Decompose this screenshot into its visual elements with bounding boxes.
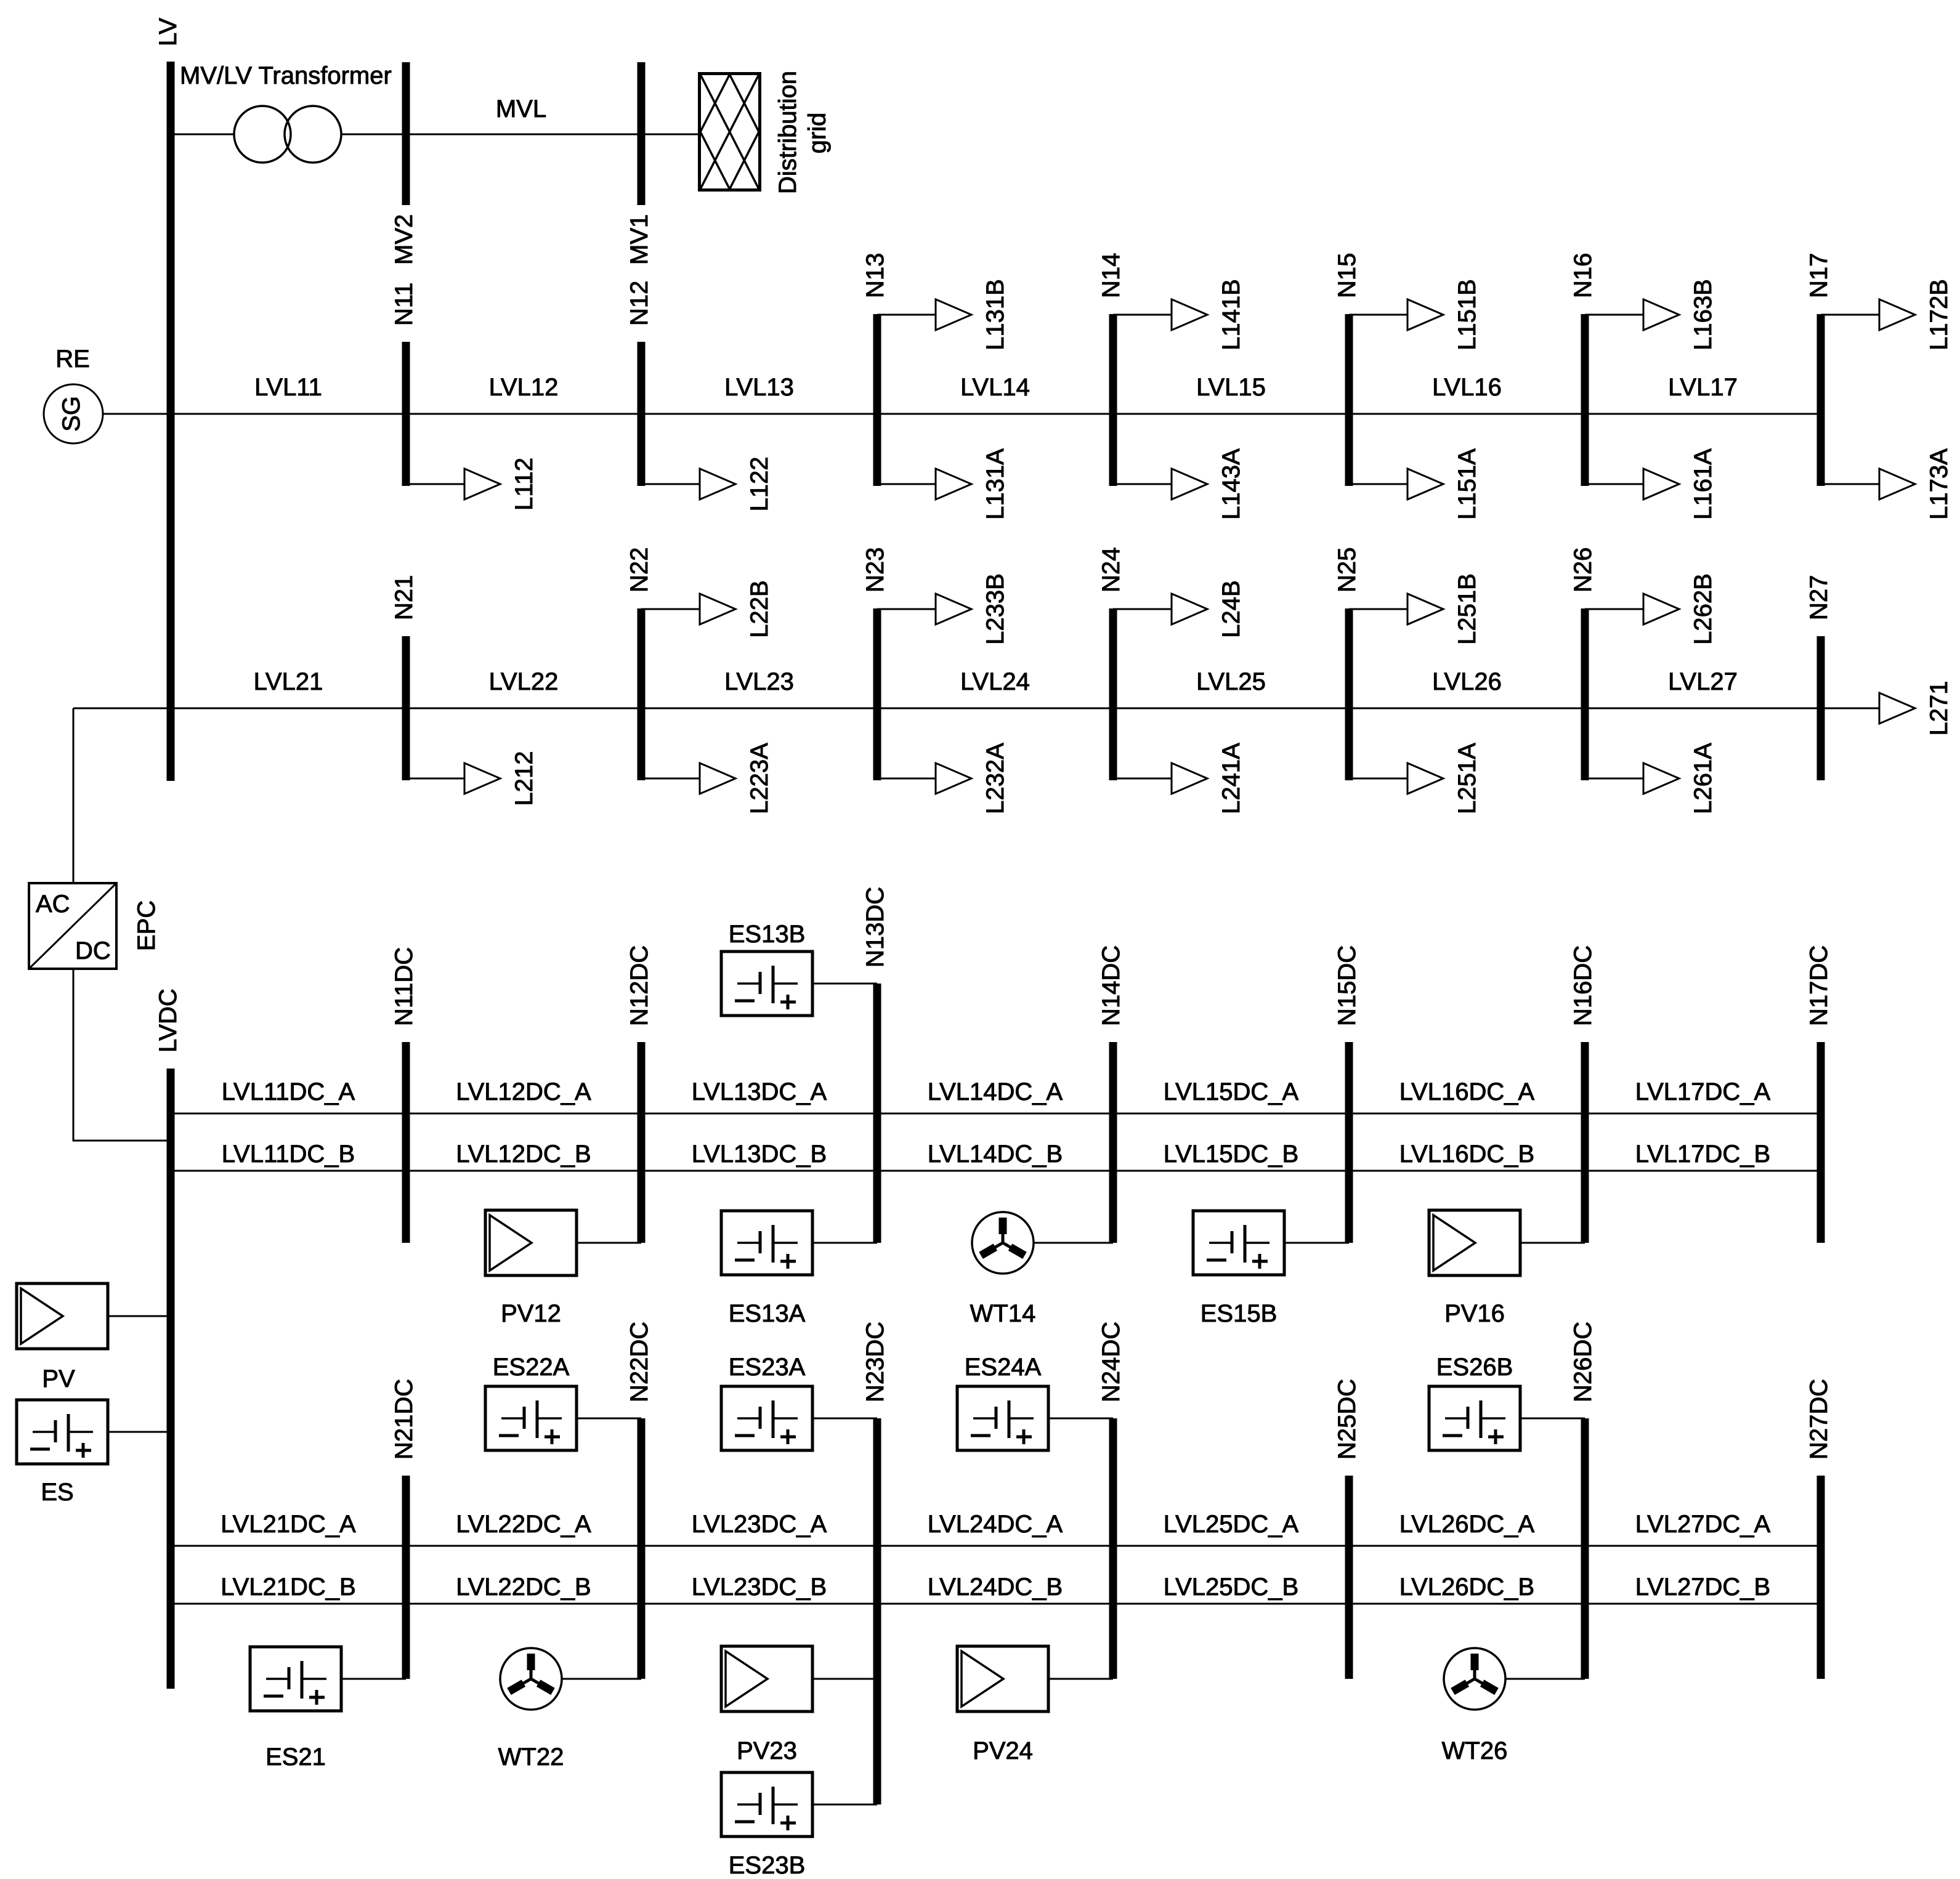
- bus N14: [1109, 314, 1117, 486]
- svg-text:L143A: L143A: [1218, 448, 1245, 520]
- svg-text:L241A: L241A: [1218, 743, 1245, 814]
- wire ES to LVDC: [108, 1431, 171, 1433]
- svg-text:N22: N22: [626, 548, 653, 592]
- svg-text:LVL27: LVL27: [1668, 668, 1738, 695]
- bus N24: [1109, 608, 1117, 780]
- svg-text:N24: N24: [1098, 548, 1125, 592]
- svg-text:WT14: WT14: [970, 1300, 1036, 1327]
- load L112: [406, 458, 538, 511]
- svg-text:PV23: PV23: [737, 1737, 797, 1764]
- svg-text:L212: L212: [511, 751, 538, 806]
- svg-text:N26DC: N26DC: [1569, 1322, 1597, 1402]
- svg-text:LVL12: LVL12: [489, 374, 559, 401]
- svg-text:ES23B: ES23B: [729, 1852, 806, 1879]
- distribution grid: [700, 74, 760, 190]
- svg-text:N16DC: N16DC: [1569, 945, 1597, 1026]
- svg-text:PV: PV: [42, 1365, 75, 1392]
- svg-text:LVL26DC_B: LVL26DC_B: [1399, 1574, 1534, 1601]
- svg-text:L161A: L161A: [1690, 448, 1717, 520]
- svg-text:LVL16DC_A: LVL16DC_A: [1399, 1078, 1535, 1105]
- svg-text:LVL14DC_A: LVL14DC_A: [928, 1078, 1063, 1105]
- wire ES13A to N13DC: [812, 1242, 877, 1244]
- load L172B: [1821, 279, 1953, 350]
- svg-text:MV/LV Transformer: MV/LV Transformer: [180, 62, 392, 89]
- wire feeder2 to EPC: [73, 708, 75, 883]
- svg-text:LVL13DC_B: LVL13DC_B: [692, 1141, 827, 1168]
- svg-text:N12: N12: [626, 281, 653, 326]
- energy storage ES24A: [957, 1386, 1048, 1450]
- bus N26DC: [1581, 1418, 1589, 1679]
- svg-text:LVL24DC_B: LVL24DC_B: [928, 1574, 1063, 1601]
- svg-text:LVL21: LVL21: [254, 668, 323, 695]
- energy storage ES13B: [721, 952, 812, 1016]
- wind turbine WT14: [972, 1212, 1034, 1274]
- wire PV23 to N23DC: [812, 1678, 877, 1680]
- svg-text:AC: AC: [36, 891, 70, 918]
- PV source PV24: [957, 1646, 1048, 1711]
- load L251A: [1349, 743, 1481, 814]
- bus N22: [638, 608, 646, 780]
- bus N27: [1817, 636, 1825, 780]
- svg-text:N23DC: N23DC: [862, 1322, 889, 1402]
- bus N23: [873, 608, 881, 780]
- bus N13DC: [873, 984, 881, 1243]
- wire EPC to LVDC bus: [73, 969, 171, 1141]
- bus N14DC: [1109, 1042, 1117, 1243]
- wire transformer to bus MV2: [341, 134, 406, 135]
- energy storage ES21: [250, 1647, 341, 1711]
- load L173A: [1821, 448, 1953, 520]
- svg-text:L251A: L251A: [1454, 743, 1481, 814]
- svg-text:LVL12DC_B: LVL12DC_B: [456, 1141, 591, 1168]
- svg-text:L271: L271: [1926, 681, 1953, 736]
- svg-text:MVL: MVL: [496, 95, 546, 123]
- svg-text:LVL15: LVL15: [1196, 374, 1266, 401]
- svg-text:L233B: L233B: [982, 573, 1009, 645]
- wire ES23A to N2xDC: [812, 1418, 877, 1420]
- svg-text:L141B: L141B: [1218, 279, 1245, 350]
- svg-text:L24B: L24B: [1218, 580, 1245, 637]
- bus LV: [167, 62, 175, 781]
- svg-text:LVL16DC_B: LVL16DC_B: [1399, 1141, 1534, 1168]
- wire PV12 to N12DC: [577, 1242, 641, 1244]
- bus N25DC: [1345, 1476, 1353, 1679]
- svg-text:LVL23DC_A: LVL23DC_A: [692, 1511, 827, 1538]
- svg-text:LVL14DC_B: LVL14DC_B: [928, 1141, 1063, 1168]
- bus N13: [873, 314, 881, 486]
- svg-text:LVL17: LVL17: [1668, 374, 1738, 401]
- load L122: [641, 457, 773, 512]
- load L141B: [1113, 279, 1245, 350]
- svg-text:LVL15DC_B: LVL15DC_B: [1164, 1141, 1298, 1168]
- wire WT26 to N26DC: [1505, 1678, 1585, 1680]
- svg-text:N27: N27: [1805, 575, 1832, 620]
- bus N11: [402, 342, 410, 486]
- load L261A: [1585, 743, 1717, 814]
- energy storage ES23B: [721, 1772, 812, 1837]
- svg-text:LVL25DC_B: LVL25DC_B: [1164, 1574, 1298, 1601]
- svg-text:L173A: L173A: [1926, 448, 1953, 520]
- svg-text:LVL21DC_B: LVL21DC_B: [221, 1574, 355, 1601]
- bus N17: [1817, 314, 1825, 486]
- svg-text:L122: L122: [746, 457, 773, 512]
- svg-text:LVL15DC_A: LVL15DC_A: [1164, 1078, 1299, 1105]
- svg-text:L223A: L223A: [746, 743, 773, 814]
- svg-text:Distribution: Distribution: [774, 71, 801, 194]
- svg-text:SG: SG: [58, 396, 85, 432]
- svg-text:LVDC: LVDC: [155, 988, 182, 1053]
- bus N16: [1581, 314, 1589, 486]
- energy storage ES22A: [485, 1386, 577, 1450]
- svg-text:LVL13DC_A: LVL13DC_A: [692, 1078, 827, 1105]
- svg-text:N12DC: N12DC: [626, 945, 653, 1026]
- svg-text:WT26: WT26: [1442, 1737, 1508, 1764]
- bus N16DC: [1581, 1042, 1589, 1243]
- svg-text:N14DC: N14DC: [1098, 945, 1125, 1026]
- svg-text:L261A: L261A: [1690, 743, 1717, 814]
- bus N27DC: [1817, 1476, 1825, 1679]
- wire LVL1DC_B: [171, 1170, 1821, 1172]
- svg-text:ES13A: ES13A: [729, 1300, 806, 1327]
- load L241A: [1113, 743, 1245, 814]
- svg-text:L172B: L172B: [1926, 279, 1953, 350]
- svg-text:LVL22DC_A: LVL22DC_A: [456, 1511, 591, 1538]
- load L151B: [1349, 279, 1481, 350]
- bus N24DC: [1109, 1418, 1117, 1679]
- svg-text:LVL26: LVL26: [1432, 668, 1502, 695]
- wire ES21 to N21DC: [341, 1678, 406, 1680]
- svg-text:L131B: L131B: [982, 279, 1009, 350]
- wire WT14 to N14DC: [1034, 1242, 1113, 1244]
- svg-text:N15DC: N15DC: [1334, 945, 1361, 1026]
- svg-text:LVL25DC_A: LVL25DC_A: [1164, 1511, 1299, 1538]
- svg-text:N17DC: N17DC: [1805, 945, 1832, 1026]
- svg-text:N26: N26: [1569, 548, 1597, 592]
- svg-text:ES15B: ES15B: [1201, 1300, 1278, 1327]
- load L131B: [877, 279, 1009, 350]
- load L22B: [641, 580, 773, 637]
- svg-text:MV2: MV2: [391, 214, 418, 265]
- svg-text:ES13B: ES13B: [729, 921, 806, 948]
- wire PV24 to N24DC: [1048, 1678, 1113, 1680]
- svg-text:LVL11DC_A: LVL11DC_A: [222, 1078, 355, 1105]
- svg-text:LVL27DC_A: LVL27DC_A: [1635, 1511, 1771, 1538]
- svg-text:N27DC: N27DC: [1805, 1379, 1832, 1460]
- svg-text:LVL21DC_A: LVL21DC_A: [221, 1511, 356, 1538]
- svg-text:RE: RE: [55, 345, 90, 373]
- wind turbine WT26: [1444, 1648, 1505, 1710]
- PV source PV12: [485, 1210, 577, 1275]
- svg-text:N14: N14: [1098, 253, 1125, 298]
- svg-text:L262B: L262B: [1690, 573, 1717, 645]
- wire LVL1DC_A: [171, 1113, 1821, 1115]
- load L131A: [877, 448, 1009, 520]
- bus N17DC: [1817, 1042, 1825, 1243]
- svg-text:ES23A: ES23A: [729, 1354, 806, 1381]
- svg-text:LV: LV: [155, 18, 182, 46]
- svg-text:L151A: L151A: [1454, 448, 1481, 520]
- svg-text:LVL22DC_B: LVL22DC_B: [456, 1574, 591, 1601]
- source RE (slack generator SG): [44, 384, 103, 443]
- wind turbine WT22: [500, 1648, 562, 1710]
- svg-text:LVL23: LVL23: [724, 668, 794, 695]
- load L223A: [641, 743, 773, 814]
- svg-text:N23: N23: [862, 548, 889, 592]
- PV source PV23: [721, 1646, 812, 1711]
- PV source PV16: [1429, 1210, 1520, 1275]
- svg-text:MV1: MV1: [626, 214, 653, 265]
- wire ES22A to N2xDC: [577, 1418, 641, 1420]
- svg-text:EPC: EPC: [133, 900, 160, 951]
- wire WT22 to N22DC: [562, 1678, 641, 1680]
- wire feeder LVL2: [73, 708, 1879, 709]
- svg-text:LVL24: LVL24: [960, 668, 1030, 695]
- wire ES15B to N15DC: [1284, 1242, 1349, 1244]
- wire ES24A to N2xDC: [1048, 1418, 1113, 1420]
- svg-text:LVL11: LVL11: [254, 374, 322, 401]
- svg-text:L151B: L151B: [1454, 279, 1481, 350]
- svg-text:PV16: PV16: [1444, 1300, 1505, 1327]
- load L161A: [1585, 448, 1717, 520]
- svg-text:L131A: L131A: [982, 448, 1009, 520]
- svg-text:ES22A: ES22A: [493, 1354, 570, 1381]
- bus N26: [1581, 608, 1589, 780]
- energy storage ES26B: [1429, 1386, 1520, 1450]
- svg-text:ES21: ES21: [265, 1744, 326, 1771]
- load L24B: [1113, 580, 1245, 637]
- load L163B: [1585, 279, 1717, 350]
- bus N12DC: [638, 1042, 646, 1243]
- wire ES13B to N13DC: [812, 983, 877, 985]
- svg-text:N25DC: N25DC: [1334, 1379, 1361, 1460]
- transformer MV/LV: [234, 106, 341, 163]
- svg-text:LVL13: LVL13: [724, 374, 794, 401]
- svg-text:L22B: L22B: [746, 580, 773, 637]
- svg-text:L163B: L163B: [1690, 279, 1717, 350]
- svg-text:N21: N21: [391, 575, 418, 620]
- svg-text:LVL17DC_B: LVL17DC_B: [1635, 1141, 1770, 1168]
- svg-text:N24DC: N24DC: [1098, 1322, 1125, 1402]
- load L233B: [877, 573, 1009, 645]
- svg-text:N11: N11: [391, 283, 418, 326]
- svg-text:L112: L112: [511, 458, 538, 511]
- svg-text:N17: N17: [1805, 253, 1832, 298]
- bus MV2: [402, 62, 410, 205]
- bus N21: [402, 636, 410, 780]
- energy storage ES15B: [1193, 1211, 1284, 1275]
- svg-text:DC: DC: [75, 937, 111, 964]
- svg-text:N22DC: N22DC: [626, 1322, 653, 1402]
- svg-text:N25: N25: [1334, 548, 1361, 592]
- bus N15: [1345, 314, 1353, 486]
- wire feeder LVL1: [103, 413, 1821, 415]
- svg-text:N16: N16: [1569, 253, 1597, 298]
- svg-text:LVL26DC_A: LVL26DC_A: [1399, 1511, 1535, 1538]
- svg-text:N21DC: N21DC: [391, 1379, 418, 1460]
- svg-text:LVL27DC_B: LVL27DC_B: [1635, 1574, 1770, 1601]
- svg-text:N13DC: N13DC: [862, 887, 889, 968]
- svg-text:ES26B: ES26B: [1436, 1354, 1513, 1381]
- wire MV1 to distribution grid: [641, 134, 699, 135]
- svg-text:ES24A: ES24A: [965, 1354, 1042, 1381]
- wire PV to LVDC: [108, 1315, 171, 1317]
- bus MV1: [638, 62, 646, 205]
- svg-text:PV12: PV12: [501, 1300, 561, 1327]
- wire ES23B to N23DC: [812, 1804, 877, 1806]
- energy storage ES: [17, 1400, 108, 1464]
- bus N12: [638, 342, 646, 486]
- load L151A: [1349, 448, 1481, 520]
- svg-text:ES: ES: [41, 1479, 73, 1506]
- load L251B: [1349, 573, 1481, 645]
- svg-text:LVL12DC_A: LVL12DC_A: [456, 1078, 591, 1105]
- load L212: [406, 751, 538, 806]
- svg-text:L232A: L232A: [982, 743, 1009, 814]
- svg-text:WT22: WT22: [498, 1744, 564, 1771]
- load L232A: [877, 743, 1009, 814]
- wire LVL2DC_A: [171, 1545, 1821, 1547]
- svg-text:PV24: PV24: [973, 1737, 1033, 1764]
- svg-text:grid: grid: [804, 113, 831, 154]
- energy storage ES23A: [721, 1386, 812, 1450]
- bus N25: [1345, 608, 1353, 780]
- svg-text:L251B: L251B: [1454, 573, 1481, 645]
- svg-text:LVL22: LVL22: [489, 668, 559, 695]
- wire LV bus to transformer: [171, 134, 235, 135]
- energy storage ES13A: [721, 1211, 812, 1275]
- load L262B: [1585, 573, 1717, 645]
- svg-text:N11DC: N11DC: [391, 947, 418, 1026]
- bus N11DC: [402, 1042, 410, 1243]
- wire ES26B to N2xDC: [1520, 1418, 1585, 1420]
- converter EPC (AC/DC): [29, 883, 116, 969]
- bus N22DC: [638, 1418, 646, 1679]
- wire LVL2DC_B: [171, 1603, 1821, 1605]
- svg-text:N15: N15: [1334, 253, 1361, 298]
- bus N23DC: [873, 1418, 881, 1804]
- bus N21DC: [402, 1476, 410, 1679]
- load L143A: [1113, 448, 1245, 520]
- svg-text:LVL14: LVL14: [960, 374, 1030, 401]
- svg-text:LVL24DC_A: LVL24DC_A: [928, 1511, 1063, 1538]
- bus LVDC: [167, 1069, 175, 1689]
- svg-text:LVL23DC_B: LVL23DC_B: [692, 1574, 827, 1601]
- PV source PV: [17, 1283, 108, 1349]
- load L271: [1879, 693, 1915, 724]
- wire PV16 to N16DC: [1520, 1242, 1585, 1244]
- svg-text:LVL16: LVL16: [1432, 374, 1502, 401]
- bus N15DC: [1345, 1042, 1353, 1243]
- svg-text:LVL25: LVL25: [1196, 668, 1266, 695]
- wire MVL: [406, 134, 641, 135]
- svg-text:N13: N13: [862, 253, 889, 298]
- svg-text:LVL11DC_B: LVL11DC_B: [222, 1141, 355, 1168]
- svg-text:LVL17DC_A: LVL17DC_A: [1635, 1078, 1771, 1105]
